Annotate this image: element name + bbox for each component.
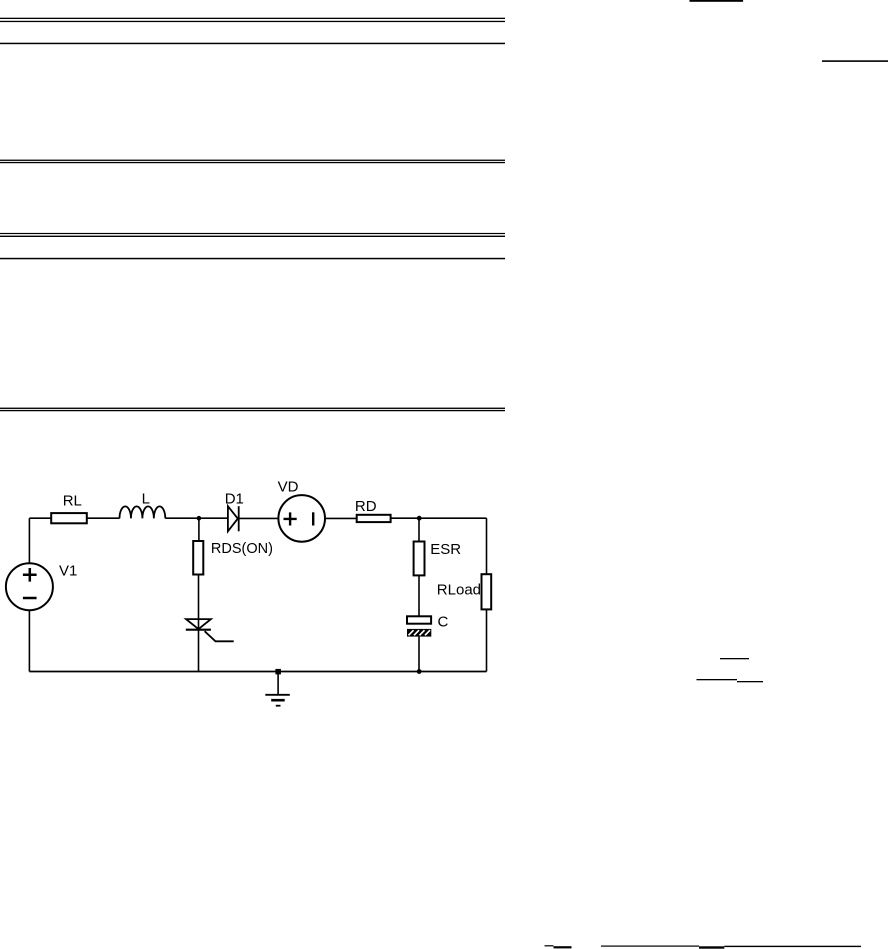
inductor L [119, 506, 165, 518]
svg-text:RD: RD [355, 498, 377, 515]
wire RLoad to bottom right corner [486, 609, 488, 671]
heading rule group top [0, 18, 505, 45]
wire V1 to bottom left corner [28, 610, 30, 671]
capacitor C plates [407, 616, 431, 636]
wire left rail down to V1 [28, 518, 30, 563]
svg-text:D1: D1 [225, 491, 244, 508]
wire C to bottom rail [418, 637, 420, 672]
svg-text:RL: RL [63, 493, 82, 510]
heading rule group mid1 [0, 160, 505, 164]
source VD [278, 495, 325, 542]
source V1 [6, 563, 53, 610]
wire L to diode D1 [165, 517, 228, 519]
svg-text:V1: V1 [59, 562, 77, 579]
wire top rail: left corner to RL [29, 517, 51, 519]
heading rule group mid3 [0, 408, 505, 412]
svg-text:RLoad: RLoad [437, 582, 481, 599]
node C junction dot on bottom rail [417, 669, 422, 674]
wire RD to node B [391, 517, 420, 519]
svg-text:L: L [142, 490, 150, 507]
wire thyristor to bottom rail [198, 630, 200, 672]
wire RL to L [87, 517, 120, 519]
svg-text:ESR: ESR [430, 541, 461, 558]
footer mark group [545, 945, 862, 949]
resistor RL body [51, 513, 87, 523]
wire ESR to capacitor C [418, 575, 420, 616]
right column rule [822, 60, 888, 62]
thyristor [186, 619, 234, 641]
wire right rail down to RLoad [486, 518, 488, 574]
fraction bar 2 [697, 679, 738, 680]
wire node A down to RDS(ON) [198, 518, 200, 541]
diode D1 [228, 506, 239, 531]
wire VD to RD [325, 517, 357, 519]
wire node B to top right corner [419, 517, 486, 519]
wire RDS(ON) to thyristor [198, 575, 200, 630]
ground [265, 672, 290, 706]
node B junction dot [417, 516, 422, 521]
fraction bar 1 [720, 658, 749, 659]
svg-text:C: C [438, 613, 449, 630]
heading rule group mid2 [0, 233, 505, 259]
node ground junction square dot [275, 669, 281, 675]
fraction bar 3 [737, 681, 763, 682]
node A junction dot [197, 516, 202, 521]
wire bottom rail [29, 671, 486, 673]
resistor RDS(ON) body [193, 541, 203, 575]
svg-text:VD: VD [278, 479, 299, 496]
top right overline [690, 0, 744, 2]
wire node B down to ESR [418, 518, 420, 541]
wire D1 to VD [239, 517, 279, 519]
svg-text:RDS(ON): RDS(ON) [211, 541, 273, 557]
resistor RLoad body [482, 574, 492, 609]
resistor ESR body [414, 542, 425, 576]
resistor RD body [357, 515, 391, 522]
